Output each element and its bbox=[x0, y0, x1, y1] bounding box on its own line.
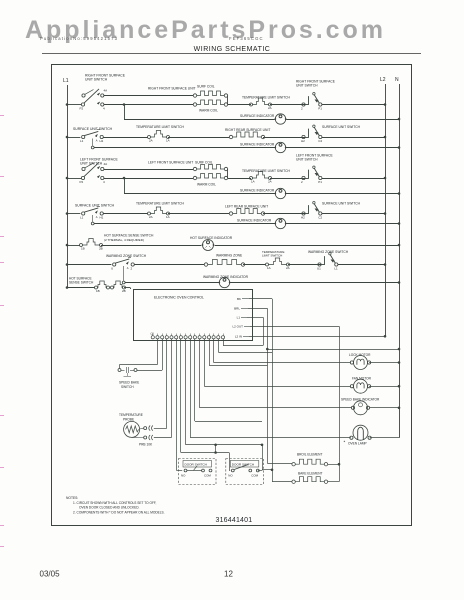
svg-text:1A: 1A bbox=[166, 139, 170, 143]
svg-text:P1: P1 bbox=[318, 107, 322, 111]
svg-text:PRB 10K: PRB 10K bbox=[139, 443, 153, 447]
svg-text:TEMPERATURE: TEMPERATURE bbox=[119, 413, 143, 417]
svg-text:L2 IN: L2 IN bbox=[235, 335, 242, 339]
svg-text:316441401: 316441401 bbox=[216, 517, 253, 524]
svg-text:HOT SURFACE INDICATOR: HOT SURFACE INDICATOR bbox=[190, 236, 233, 240]
svg-text:H1: H1 bbox=[100, 139, 104, 143]
svg-text:UNIT SWITCH: UNIT SWITCH bbox=[296, 158, 318, 162]
svg-text:SENSE SWITCH: SENSE SWITCH bbox=[69, 281, 94, 285]
svg-text:TEMPERATURE LIMIT SWITCH: TEMPERATURE LIMIT SWITCH bbox=[242, 96, 290, 100]
svg-text:12: 12 bbox=[224, 570, 233, 579]
svg-text:A: A bbox=[96, 139, 98, 143]
svg-text:03/05: 03/05 bbox=[40, 570, 61, 579]
svg-text:2B: 2B bbox=[99, 247, 103, 251]
svg-text:1A: 1A bbox=[267, 266, 271, 270]
svg-text:UNIT SWITCH: UNIT SWITCH bbox=[85, 78, 108, 82]
svg-text:A: A bbox=[96, 215, 98, 219]
svg-text:TEMPERATURE LIMIT SWITCH: TEMPERATURE LIMIT SWITCH bbox=[136, 125, 184, 129]
svg-text:SURFACE INDICATOR: SURFACE INDICATOR bbox=[240, 189, 275, 193]
svg-text:L1: L1 bbox=[334, 267, 338, 271]
svg-text:4A: 4A bbox=[104, 89, 108, 93]
svg-text:FAN MOTOR: FAN MOTOR bbox=[352, 377, 372, 381]
svg-text:2. COMPONENTS WITH * DO NOT: 2. COMPONENTS WITH * DO NOT APPEAR ON AL… bbox=[73, 511, 165, 515]
svg-text:P2: P2 bbox=[80, 180, 84, 184]
svg-text:RIGHT FRONT SURFACE UNIT: RIGHT FRONT SURFACE UNIT bbox=[148, 87, 196, 91]
svg-text:L1: L1 bbox=[63, 78, 69, 84]
svg-text:P2: P2 bbox=[80, 107, 84, 111]
svg-text:1B: 1B bbox=[96, 289, 100, 293]
svg-text:U: U bbox=[111, 267, 113, 271]
svg-text:2A: 2A bbox=[268, 180, 272, 184]
svg-text:BRL: BRL bbox=[234, 307, 240, 311]
svg-text:WARMING ZONE SWITCH: WARMING ZONE SWITCH bbox=[106, 254, 147, 258]
svg-text:UNIT SWITCH: UNIT SWITCH bbox=[296, 84, 318, 88]
svg-text:SURFACE UNIT SWITCH: SURFACE UNIT SWITCH bbox=[73, 127, 113, 131]
svg-text:1. CIRCUIT SHOWN WITH ALL CO: 1. CIRCUIT SHOWN WITH ALL CONTROLS SET T… bbox=[73, 501, 157, 505]
svg-text:2B: 2B bbox=[122, 289, 126, 293]
svg-text:H2: H2 bbox=[301, 139, 305, 143]
svg-text:SURFACE UNIT SWITCH: SURFACE UNIT SWITCH bbox=[75, 204, 115, 208]
svg-text:SURF COIL: SURF COIL bbox=[195, 161, 213, 165]
svg-text:HOT SURFACE SENSE SWITCH: HOT SURFACE SENSE SWITCH bbox=[104, 234, 154, 238]
svg-text:COM: COM bbox=[204, 474, 211, 478]
svg-text:2A: 2A bbox=[268, 106, 272, 110]
svg-text:LEFT REAR SURFACE UNIT: LEFT REAR SURFACE UNIT bbox=[225, 205, 268, 209]
svg-text:OVEN LAMP: OVEN LAMP bbox=[348, 442, 367, 446]
svg-text:PROBE: PROBE bbox=[123, 418, 134, 422]
svg-text:1B: 1B bbox=[81, 247, 85, 251]
svg-text:BAKE ELEMENT: BAKE ELEMENT bbox=[298, 472, 322, 476]
svg-text:WARM COIL: WARM COIL bbox=[199, 109, 218, 113]
svg-text:OVEN DOOR CLOSED AND UNLOCKED.: OVEN DOOR CLOSED AND UNLOCKED. bbox=[79, 506, 140, 510]
svg-text:ELECTRONIC OVEN CONTROL: ELECTRONIC OVEN CONTROL bbox=[154, 296, 204, 300]
svg-text:WARM COIL: WARM COIL bbox=[197, 183, 216, 187]
svg-text:BROIL ELEMENT: BROIL ELEMENT bbox=[297, 453, 322, 457]
svg-text:WARMING ZONE INDICATOR: WARMING ZONE INDICATOR bbox=[203, 275, 249, 279]
svg-text:UNIT SWITCH: UNIT SWITCH bbox=[80, 162, 103, 166]
svg-text:L1: L1 bbox=[237, 316, 241, 320]
svg-text:SURFACE UNIT SWITCH: SURFACE UNIT SWITCH bbox=[322, 125, 361, 129]
svg-text:BK: BK bbox=[237, 297, 241, 301]
svg-text:C2: C2 bbox=[318, 216, 322, 220]
svg-text:DOOR SWITCH: DOOR SWITCH bbox=[185, 463, 207, 467]
svg-text:LOCK MOTOR: LOCK MOTOR bbox=[349, 353, 371, 357]
svg-text:SURF COIL: SURF COIL bbox=[197, 85, 215, 89]
svg-text:U1: U1 bbox=[317, 267, 321, 271]
svg-text:COM: COM bbox=[251, 474, 258, 478]
svg-text:SURFACE INDICATOR: SURFACE INDICATOR bbox=[240, 143, 275, 147]
svg-text:SURFACE INDICATOR: SURFACE INDICATOR bbox=[237, 219, 272, 223]
svg-text:P u b l i c a t i o n N o :: P u b l i c a t i o n N o : 5 9 9 5 4 2 … bbox=[40, 36, 118, 41]
svg-text:1A: 1A bbox=[251, 180, 255, 184]
svg-text:L1: L1 bbox=[80, 139, 84, 143]
svg-text:NO: NO bbox=[181, 474, 186, 478]
svg-text:H2: H2 bbox=[301, 216, 305, 220]
svg-text:F E F 3 6 5 C G C: F E F 3 6 5 C G C bbox=[229, 36, 263, 41]
svg-text:SPEED BAKE: SPEED BAKE bbox=[119, 381, 139, 385]
svg-text:A: A bbox=[127, 266, 129, 270]
svg-text:*: * bbox=[344, 440, 346, 445]
svg-text:SWITCH: SWITCH bbox=[121, 385, 134, 389]
svg-text:C2: C2 bbox=[318, 139, 322, 143]
svg-text:TEMPERATURE LIMIT SWITCH: TEMPERATURE LIMIT SWITCH bbox=[242, 169, 290, 173]
svg-text:P1: P1 bbox=[318, 180, 322, 184]
svg-text:SURFACE UNIT SWITCH: SURFACE UNIT SWITCH bbox=[322, 202, 361, 206]
svg-text:L1: L1 bbox=[80, 216, 84, 220]
svg-text:N: N bbox=[395, 77, 399, 83]
svg-text:NOTES:: NOTES: bbox=[66, 496, 78, 500]
svg-text:L2 OUT: L2 OUT bbox=[232, 325, 243, 329]
svg-text:4A: 4A bbox=[104, 162, 108, 166]
svg-text:H1: H1 bbox=[100, 216, 104, 220]
svg-text:1A: 1A bbox=[166, 215, 170, 219]
svg-text:2A: 2A bbox=[149, 139, 153, 143]
svg-text:WARMING ZONE: WARMING ZONE bbox=[216, 254, 243, 258]
svg-text:NO: NO bbox=[228, 474, 233, 478]
svg-text:2A: 2A bbox=[286, 266, 290, 270]
svg-text:L2: L2 bbox=[380, 77, 386, 83]
svg-text:(2 THERMAL, 4 REQUIRED): (2 THERMAL, 4 REQUIRED) bbox=[104, 238, 144, 242]
svg-text:2A: 2A bbox=[149, 215, 153, 219]
svg-text:RIGHT REAR SURFACE UNIT: RIGHT REAR SURFACE UNIT bbox=[225, 128, 270, 132]
svg-text:LEFT FRONT SURFACE UNIT: LEFT FRONT SURFACE UNIT bbox=[148, 161, 193, 165]
svg-text:DOOR SWITCH: DOOR SWITCH bbox=[232, 463, 254, 467]
svg-text:SURFACE INDICATOR: SURFACE INDICATOR bbox=[240, 114, 275, 118]
svg-text:TEMPERATURE LIMIT SWITCH: TEMPERATURE LIMIT SWITCH bbox=[136, 202, 184, 206]
svg-text:WIRING SCHEMATIC: WIRING SCHEMATIC bbox=[194, 46, 271, 53]
svg-text:LIMIT SWITCH: LIMIT SWITCH bbox=[262, 254, 282, 258]
svg-text:(1): (1) bbox=[151, 332, 154, 336]
